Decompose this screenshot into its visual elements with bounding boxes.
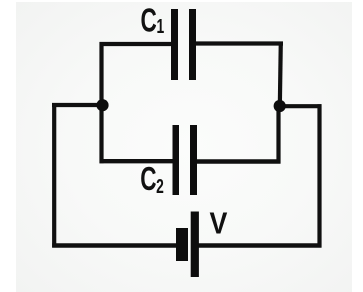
label C1 (141, 1, 165, 38)
battery V (176, 212, 199, 278)
wire (100, 159, 174, 163)
wire (99, 104, 103, 163)
wire (99, 42, 103, 106)
junction node right (274, 100, 286, 112)
svg-text:C: C (141, 1, 157, 38)
wire (52, 103, 104, 107)
capacitor C2 (173, 125, 198, 195)
wire (317, 104, 321, 247)
wire (196, 41, 284, 45)
junction node left (96, 99, 108, 111)
svg-text:1: 1 (156, 14, 164, 37)
wire (100, 42, 173, 46)
capacitor C1 (171, 9, 196, 80)
wire (276, 106, 280, 164)
wire (52, 103, 56, 248)
svg-text:V: V (210, 207, 228, 241)
svg-text:2: 2 (156, 174, 164, 197)
svg-text:C: C (140, 160, 156, 197)
wire (197, 159, 281, 163)
wire (280, 42, 281, 109)
wire (278, 104, 322, 108)
wire (199, 243, 322, 248)
label C2 (140, 160, 164, 198)
wire (52, 243, 176, 248)
label V (210, 207, 228, 241)
